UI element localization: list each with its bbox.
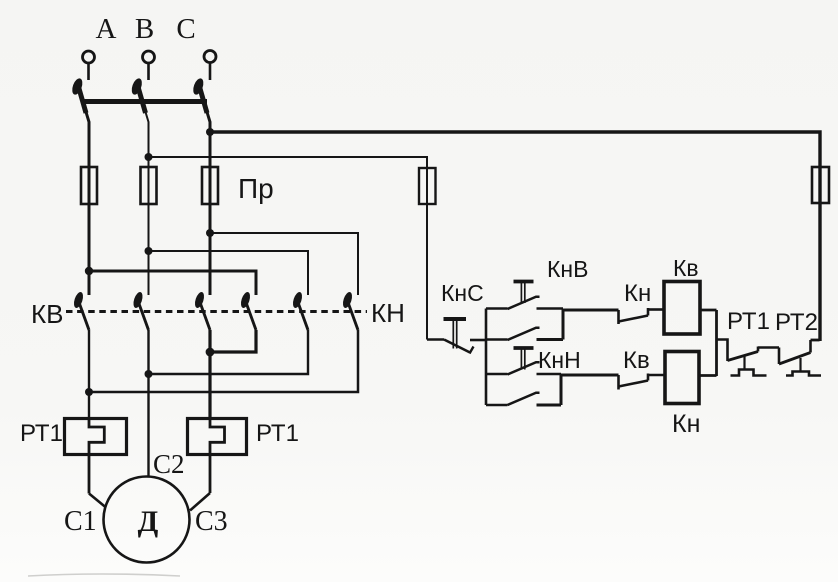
wire КН3 output bbox=[89, 330, 358, 392]
wire terminal B stem bbox=[147, 64, 150, 81]
contact КВ pole2 bbox=[132, 291, 149, 330]
thermal contact РТ1 bbox=[728, 352, 759, 361]
thermal element РТ1 right heater bbox=[210, 419, 225, 494]
node B control tap bbox=[145, 153, 153, 161]
button КнВ plunger bbox=[514, 280, 534, 284]
wire КН2 output bbox=[149, 330, 309, 374]
wire КН1 output bbox=[210, 330, 256, 352]
wire merge to РТ1 contact bbox=[717, 340, 728, 362]
switch blade C bbox=[191, 77, 207, 113]
terminal B bbox=[143, 51, 155, 63]
node B feed КН bbox=[145, 247, 153, 255]
contact КН pole1 bbox=[239, 291, 256, 330]
button КнН plunger bbox=[514, 346, 534, 350]
thermal element РТ1 left heater bbox=[89, 419, 104, 494]
svg-text:КВ: КВ bbox=[31, 299, 64, 329]
svg-text:С: С bbox=[176, 13, 195, 45]
fuse control right bbox=[812, 167, 829, 203]
stop button КнС contact bbox=[444, 340, 470, 353]
svg-text:РТ1: РТ1 bbox=[727, 308, 770, 335]
stop button КнС plunger bbox=[444, 317, 467, 321]
wire A to KN contact4 bbox=[89, 271, 256, 295]
button КнВ contact bbox=[486, 307, 508, 310]
svg-text:Кв: Кв bbox=[623, 347, 650, 374]
wire to interlock Кн bbox=[563, 309, 619, 312]
interlock contact Кв bbox=[617, 375, 620, 390]
svg-text:КнВ: КнВ bbox=[547, 256, 588, 282]
contact КН pole3 bbox=[341, 291, 358, 330]
contact КН pole2 bbox=[291, 291, 308, 330]
wire to motor C1 bbox=[89, 494, 106, 508]
terminal C bbox=[204, 51, 216, 63]
mechanical link dashed bbox=[66, 310, 367, 313]
wire terminal A stem bbox=[87, 64, 90, 81]
switch link bar bbox=[82, 99, 207, 104]
wire КнС to branch bbox=[470, 339, 486, 342]
fuse control left bbox=[419, 168, 436, 204]
scan shadow artifact bbox=[28, 574, 180, 576]
svg-text:РТ1: РТ1 bbox=[20, 420, 63, 447]
wire phase B vertical bbox=[146, 112, 149, 295]
wire phase C vertical bbox=[207, 112, 210, 295]
svg-text:А: А bbox=[96, 13, 117, 45]
svg-text:Пр: Пр bbox=[238, 173, 274, 204]
coil Кв bbox=[664, 282, 700, 335]
wire coil Кв out bbox=[700, 309, 717, 312]
button КнН contact bbox=[486, 373, 508, 376]
wire КВ3 output bbox=[208, 330, 211, 419]
switch blade A bbox=[70, 77, 86, 113]
svg-text:Кн: Кн bbox=[624, 280, 651, 307]
node A feed КН bbox=[85, 267, 93, 275]
svg-text:КнС: КнС bbox=[441, 280, 484, 306]
thermal contact РТ2 bbox=[778, 348, 781, 365]
svg-text:В: В bbox=[135, 13, 154, 45]
svg-text:С1: С1 bbox=[64, 506, 97, 537]
fuse C bbox=[202, 167, 218, 204]
node C feed КН bbox=[206, 229, 214, 237]
wire terminal C stem bbox=[209, 63, 212, 80]
wire phase A vertical bbox=[86, 112, 89, 295]
svg-text:КнН: КнН bbox=[538, 347, 581, 373]
wire to motor C3 bbox=[190, 493, 210, 511]
svg-text:Д: Д bbox=[138, 505, 159, 538]
fuse B bbox=[141, 167, 157, 204]
node КВ1-КН3 join bbox=[85, 388, 93, 396]
wire coils merge bbox=[715, 310, 718, 376]
node КВ3-КН1 join bbox=[206, 348, 215, 357]
aux contact Кн hold bbox=[486, 404, 508, 407]
wire branch right vertical bottom bbox=[560, 374, 563, 405]
switch blade B bbox=[130, 77, 146, 113]
coil Кн bbox=[665, 352, 699, 404]
wire КВ2 output bbox=[147, 330, 149, 477]
svg-text:С2: С2 bbox=[153, 449, 185, 479]
wire control supply left bbox=[149, 157, 428, 340]
wire B to KN contact5 bbox=[149, 251, 309, 295]
motor Д bbox=[104, 477, 190, 563]
aux contact Кв hold bbox=[486, 338, 508, 341]
wire КВ1 output bbox=[88, 330, 90, 419]
svg-text:С3: С3 bbox=[195, 506, 228, 537]
svg-text:Кв: Кв bbox=[673, 255, 699, 281]
wire C to KN contact6 bbox=[210, 233, 358, 295]
thermal element РТ1 left box bbox=[65, 419, 127, 455]
svg-text:КН: КН bbox=[371, 298, 405, 328]
wire branch left vertical bbox=[485, 309, 488, 406]
interlock contact Кн bbox=[617, 310, 620, 324]
wire to interlock Кв bbox=[561, 374, 619, 377]
wire control main bbox=[427, 338, 444, 341]
contact КВ pole1 bbox=[72, 291, 89, 330]
terminal A bbox=[83, 51, 95, 63]
wire coil Кн out bbox=[699, 374, 717, 377]
svg-text:РТ2: РТ2 bbox=[775, 309, 818, 336]
svg-text:РТ1: РТ1 bbox=[256, 420, 299, 447]
thermal element РТ1 right box bbox=[188, 419, 247, 455]
wire control supply top bbox=[210, 132, 820, 341]
fuse A bbox=[81, 167, 97, 204]
contact КВ pole3 bbox=[193, 291, 210, 330]
node C control tap bbox=[206, 128, 214, 136]
wire branch right vertical top bbox=[562, 309, 565, 340]
node КВ2-КН2 join bbox=[145, 370, 153, 378]
svg-text:Кн: Кн bbox=[672, 410, 700, 438]
